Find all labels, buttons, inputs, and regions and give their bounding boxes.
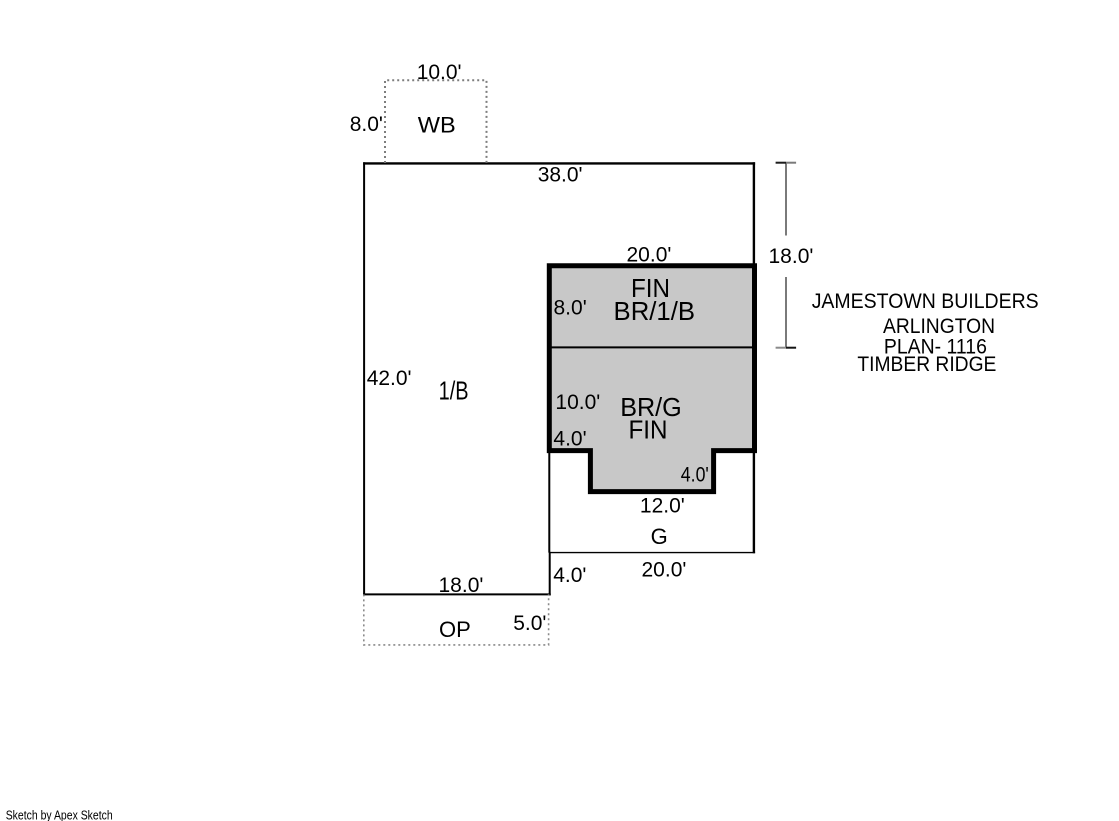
WB wood balcony dashed outline <box>385 80 487 163</box>
svg-text:BR/1/B: BR/1/B <box>614 296 696 326</box>
svg-text:Sketch by Apex Sketch: Sketch by Apex Sketch <box>6 808 113 821</box>
svg-text:8.0': 8.0' <box>554 297 587 320</box>
svg-text:10.0': 10.0' <box>417 61 462 84</box>
step wall below garage <box>549 552 551 596</box>
svg-text:20.0': 20.0' <box>642 558 687 581</box>
wall top edge <box>363 162 755 164</box>
svg-text:12.0': 12.0' <box>640 495 685 518</box>
svg-text:8.0': 8.0' <box>350 113 383 136</box>
svg-text:G: G <box>651 524 668 549</box>
wall left edge <box>363 162 365 595</box>
interior wall left of garage <box>548 451 550 553</box>
svg-text:4.0': 4.0' <box>553 564 586 587</box>
svg-text:1/B: 1/B <box>439 375 469 405</box>
svg-text:20.0': 20.0' <box>627 244 672 267</box>
svg-text:JAMESTOWN BUILDERS: JAMESTOWN BUILDERS <box>812 290 1039 313</box>
1/B bottom edge <box>363 593 551 595</box>
svg-text:OP: OP <box>439 617 471 642</box>
OP open porch dashed outline <box>364 594 549 645</box>
svg-text:42.0': 42.0' <box>367 367 412 390</box>
svg-text:FIN: FIN <box>629 414 668 444</box>
wall outline: main 1/B + garage perimeter <box>364 163 754 594</box>
svg-text:4.0': 4.0' <box>553 428 586 451</box>
svg-text:18.0': 18.0' <box>439 574 484 597</box>
divider line inside gray area <box>549 346 754 348</box>
svg-text:WB: WB <box>418 113 456 138</box>
garage bottom edge <box>549 552 755 554</box>
svg-text:4.0': 4.0' <box>681 463 709 486</box>
svg-text:5.0': 5.0' <box>513 612 546 635</box>
wall right edge <box>753 162 755 553</box>
svg-text:18.0': 18.0' <box>769 245 814 268</box>
18ft dimension line right side <box>776 163 797 348</box>
finished basement gray area (FIN BR) <box>549 266 754 492</box>
svg-text:TIMBER RIDGE: TIMBER RIDGE <box>857 353 996 376</box>
svg-text:10.0': 10.0' <box>555 391 600 414</box>
svg-text:38.0': 38.0' <box>538 164 583 187</box>
